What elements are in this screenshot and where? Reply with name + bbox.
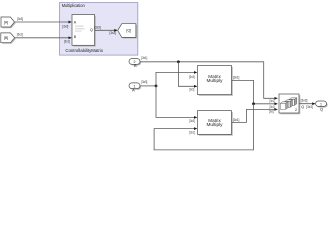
svg-text:[3x3]: [3x3]	[62, 25, 68, 29]
svg-text:[3x1]: [3x1]	[233, 76, 240, 80]
wire branch A down to Matrix Multiply 2 input 1	[156, 86, 197, 118]
wire branch A up to Matrix Multiply 1 input 1	[156, 72, 197, 86]
svg-text:[3x1]: [3x1]	[270, 99, 275, 103]
svg-text:Multiply: Multiply	[207, 78, 224, 83]
wire A from oval to junction	[140, 85, 156, 87]
block Matrix Concatenate	[279, 94, 300, 114]
svg-text:[3x1]: [3x1]	[189, 131, 195, 135]
svg-text:[3x3]: [3x3]	[94, 25, 101, 29]
svg-text:[Q]: [Q]	[126, 29, 131, 33]
wire A from tag to ControllabilityMatrix	[15, 21, 72, 23]
inport oval 1 (A)	[129, 83, 141, 93]
wire loop MM1 output to Matrix Multiply 2 input 2	[154, 104, 253, 150]
wire B to Matrix Concatenate input 1	[140, 62, 277, 99]
wire MM2 output up to Matrix Concatenate input 3	[232, 109, 278, 122]
svg-text:[A]: [A]	[4, 20, 9, 24]
junction node on B wire	[177, 60, 180, 63]
svg-text:Multiplication: Multiplication	[62, 3, 85, 8]
inport oval 2 (B)	[129, 59, 141, 68]
wire MM1 output down to Matrix Concatenate input 2	[232, 80, 278, 103]
svg-text:[3x3]: [3x3]	[189, 75, 195, 79]
svg-text:[3x1]: [3x1]	[270, 105, 275, 109]
svg-text:[3x3]: [3x3]	[301, 99, 308, 103]
svg-text:Q: Q	[90, 28, 93, 32]
svg-text:[3x1]: [3x1]	[233, 118, 240, 122]
wire branch B to Matrix Multiply 1 input 2	[178, 62, 197, 87]
svg-text:[3x3]: [3x3]	[17, 17, 23, 21]
wire Q from block to Goto [Q]	[95, 29, 118, 31]
svg-text:A: A	[132, 88, 135, 93]
wire B from tag to ControllabilityMatrix	[15, 37, 72, 39]
svg-text:ControllabilityMatrix: ControllabilityMatrix	[65, 48, 104, 53]
svg-text:[B]: [B]	[4, 36, 9, 40]
svg-text:[3x3]: [3x3]	[110, 31, 117, 35]
svg-text:[3x1]: [3x1]	[189, 88, 194, 92]
junction node on MM1 output wire	[252, 102, 255, 105]
svg-text:[3x3]: [3x3]	[189, 119, 195, 123]
wire concat output to outport Q	[299, 103, 315, 105]
block Matrix Multiply 1 (U1)	[198, 66, 233, 96]
outport oval 1 (Q)	[316, 101, 328, 112]
svg-text:Q: Q	[320, 107, 323, 112]
block ControllabilityMatrix	[65, 15, 104, 53]
From tag [B]	[1, 33, 16, 44]
svg-text:[3x3]: [3x3]	[141, 80, 147, 84]
From tag [A]	[1, 17, 16, 28]
block Matrix Multiply 2 (U2)	[198, 111, 233, 136]
svg-text:[3x1]: [3x1]	[141, 56, 147, 60]
svg-text:[3x1]: [3x1]	[17, 33, 23, 37]
svg-text:[3x1]: [3x1]	[269, 110, 274, 114]
svg-text:[3x3]: [3x3]	[306, 105, 312, 109]
svg-text:B: B	[134, 63, 137, 68]
junction node on A wire	[155, 85, 158, 88]
subsystem area "Multiplication"	[60, 3, 138, 56]
svg-text:2: 2	[295, 108, 297, 112]
svg-text:Q: Q	[301, 105, 304, 109]
svg-text:Multiply: Multiply	[207, 122, 224, 127]
svg-text:[3x1]: [3x1]	[64, 40, 70, 44]
Goto tag [Q]	[118, 24, 137, 39]
